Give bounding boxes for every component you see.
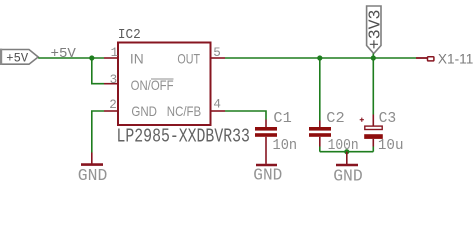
op IC2 box	[118, 43, 211, 126]
pin 1 IN	[104, 57, 118, 59]
junction dot +5V node	[89, 55, 94, 60]
overline on OFF	[151, 78, 174, 80]
capacitor C3 polarized	[360, 115, 383, 147]
wire C3 branch	[372, 58, 374, 115]
wire C3 bottom	[372, 147, 374, 152]
ground GND (C2/C3)	[333, 152, 363, 186]
svg-text:C1: C1	[273, 110, 291, 127]
svg-text:X1-11: X1-11	[438, 52, 473, 67]
wire OUT net horizontal	[225, 57, 416, 59]
wire bottom net C2-C3	[320, 151, 374, 153]
svg-text:GND: GND	[78, 166, 108, 185]
wire +5V branch to pin 3	[92, 58, 104, 84]
junction node C2 tap	[317, 55, 322, 60]
svg-text:C2: C2	[326, 110, 344, 127]
svg-text:5: 5	[213, 46, 221, 60]
ground GND (C1)	[253, 165, 282, 185]
svg-text:4: 4	[213, 98, 221, 112]
svg-text:NC/FB: NC/FB	[167, 104, 201, 119]
plus sign C3	[360, 119, 364, 121]
wire pin 4 to C1	[225, 111, 266, 120]
svg-text:+5V: +5V	[6, 51, 28, 66]
svg-text:+3V3: +3V3	[366, 10, 385, 50]
junction node +3V3/C3 tap	[371, 55, 376, 60]
svg-text:1: 1	[111, 46, 119, 60]
wire +5V net horizontal	[38, 57, 104, 59]
svg-text:10n: 10n	[273, 137, 298, 154]
svg-text:+5V: +5V	[51, 47, 77, 62]
svg-text:IC2: IC2	[118, 27, 141, 43]
svg-text:GND: GND	[253, 166, 282, 185]
supply flag +5V	[0, 49, 38, 66]
svg-text:2: 2	[109, 98, 117, 112]
supply flag +3V3	[366, 6, 385, 54]
svg-text:GND: GND	[131, 104, 157, 119]
pin X1-11	[416, 52, 473, 67]
wire pin 2 to ground	[92, 111, 104, 153]
wire C2 bottom	[319, 147, 321, 152]
svg-text:OUT: OUT	[177, 51, 200, 66]
svg-text:3: 3	[110, 73, 118, 87]
pin 3 ON/OFF	[104, 83, 118, 85]
svg-text:10u: 10u	[378, 137, 404, 154]
ground GND (IC2)	[78, 153, 108, 185]
wire C2 branch	[319, 58, 321, 121]
pin 4 NC/FB	[211, 110, 226, 112]
capacitor C2	[309, 121, 331, 147]
pin 5 OUT	[211, 57, 226, 59]
svg-text:GND: GND	[333, 166, 363, 185]
svg-text:LP2985-XXDBVR33: LP2985-XXDBVR33	[117, 126, 250, 148]
junction node GND tap	[344, 149, 349, 154]
wire flag stub	[372, 54, 374, 59]
svg-text:ON/OFF: ON/OFF	[131, 78, 174, 93]
capacitor C1	[255, 120, 277, 164]
svg-text:C3: C3	[379, 110, 397, 127]
svg-text:IN: IN	[130, 51, 144, 66]
pin 2 GND	[104, 110, 118, 112]
